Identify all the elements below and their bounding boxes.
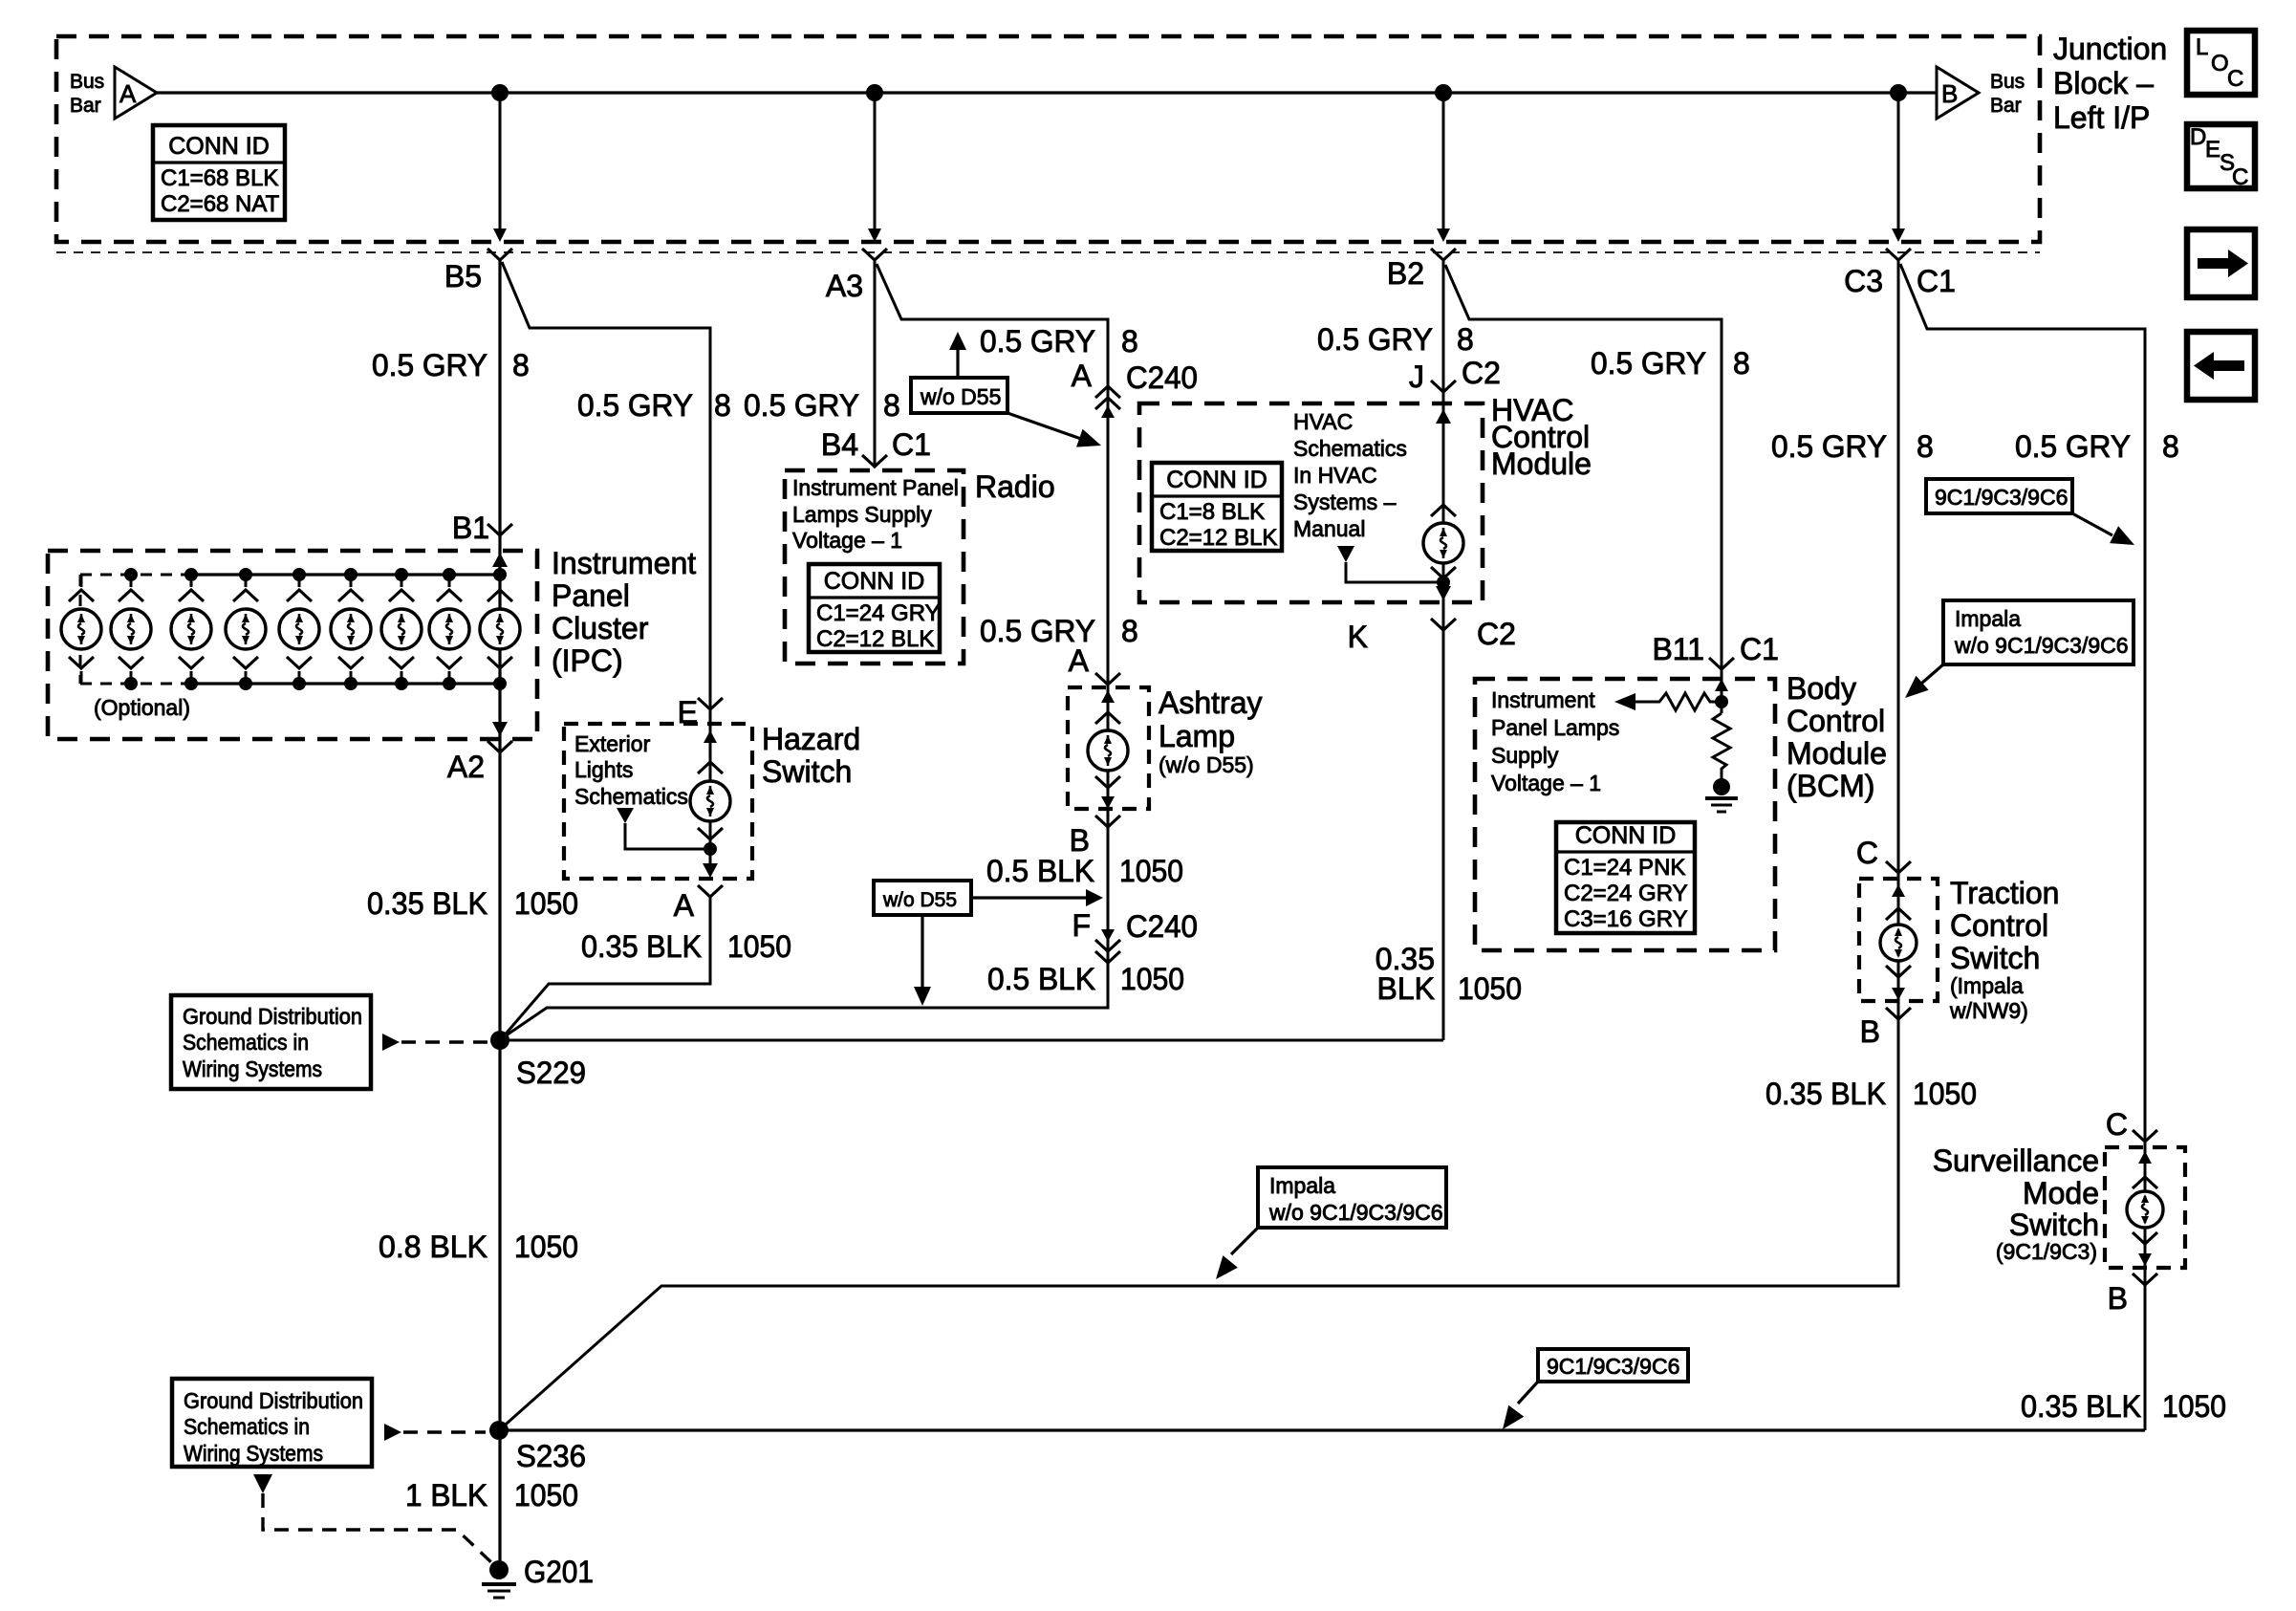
svg-text:Lights: Lights — [574, 757, 633, 782]
svg-text:Lamp: Lamp — [1159, 719, 1235, 753]
svg-text:0.35 BLK: 0.35 BLK — [367, 886, 487, 921]
svg-text:C3: C3 — [1844, 264, 1883, 298]
svg-text:Lamps Supply: Lamps Supply — [792, 502, 932, 527]
svg-text:0.5 GRY: 0.5 GRY — [577, 388, 693, 423]
svg-text:C240: C240 — [1126, 360, 1198, 395]
svg-text:Junction: Junction — [2053, 32, 2167, 66]
svg-text:Panel Lamps: Panel Lamps — [1491, 715, 1619, 740]
svg-text:S236: S236 — [516, 1439, 586, 1473]
svg-text:0.5 GRY: 0.5 GRY — [1591, 346, 1706, 381]
svg-text:Bar: Bar — [70, 95, 101, 117]
svg-text:Ground Distribution: Ground Distribution — [183, 1004, 362, 1029]
svg-text:Wiring Systems: Wiring Systems — [183, 1056, 322, 1081]
svg-text:Bus: Bus — [1990, 71, 2025, 93]
svg-text:O: O — [2211, 51, 2229, 76]
svg-text:8: 8 — [883, 388, 900, 423]
svg-text:Schematics in: Schematics in — [184, 1414, 310, 1439]
svg-text:w/o D55: w/o D55 — [882, 889, 957, 911]
svg-text:Ground Distribution: Ground Distribution — [184, 1388, 363, 1413]
svg-text:C1: C1 — [892, 427, 931, 462]
svg-text:1050: 1050 — [1120, 962, 1184, 996]
svg-text:B: B — [1941, 79, 1958, 108]
svg-text:1050: 1050 — [1119, 854, 1183, 888]
svg-text:K: K — [1348, 620, 1368, 654]
svg-text:1 BLK: 1 BLK — [405, 1478, 487, 1513]
svg-text:Surveillance: Surveillance — [1933, 1143, 2099, 1178]
svg-text:C1=24 PNK: C1=24 PNK — [1564, 855, 1685, 881]
svg-text:B: B — [1070, 823, 1090, 858]
svg-text:Wiring Systems: Wiring Systems — [184, 1441, 323, 1466]
svg-text:(IPC): (IPC) — [552, 643, 623, 678]
svg-text:9C1/9C3/9C6: 9C1/9C3/9C6 — [1935, 485, 2068, 510]
svg-text:Switch: Switch — [2009, 1208, 2099, 1242]
svg-text:C1=68 BLK: C1=68 BLK — [161, 165, 278, 191]
svg-text:w/o D55: w/o D55 — [920, 384, 1001, 409]
svg-text:0.5 GRY: 0.5 GRY — [1317, 322, 1433, 357]
svg-text:C2=24 GRY: C2=24 GRY — [1564, 881, 1688, 906]
svg-text:Module: Module — [1491, 446, 1592, 481]
svg-text:1050: 1050 — [2162, 1389, 2226, 1424]
svg-text:1050: 1050 — [1913, 1077, 1977, 1111]
svg-text:C1=24 GRY: C1=24 GRY — [816, 600, 941, 626]
svg-text:HVAC: HVAC — [1293, 409, 1353, 434]
svg-text:0.5 GRY: 0.5 GRY — [372, 348, 487, 382]
svg-text:8: 8 — [1733, 346, 1750, 381]
svg-text:Systems –: Systems – — [1293, 490, 1397, 514]
svg-text:(Optional): (Optional) — [94, 695, 190, 720]
svg-text:8: 8 — [1121, 324, 1138, 359]
svg-text:Mode: Mode — [2023, 1176, 2099, 1210]
svg-text:0.5 BLK: 0.5 BLK — [987, 962, 1095, 996]
svg-text:Instrument: Instrument — [1491, 687, 1595, 712]
svg-text:F: F — [1072, 908, 1091, 943]
svg-text:0.35 BLK: 0.35 BLK — [581, 929, 702, 964]
svg-text:(9C1/9C3): (9C1/9C3) — [1996, 1239, 2097, 1264]
svg-text:C1: C1 — [1740, 632, 1779, 666]
svg-text:A: A — [1072, 359, 1093, 393]
svg-text:Switch: Switch — [1950, 941, 2040, 975]
svg-text:D: D — [2190, 124, 2206, 150]
svg-text:(w/o D55): (w/o D55) — [1159, 752, 1254, 777]
svg-text:C1=8 BLK: C1=8 BLK — [1159, 499, 1265, 525]
svg-text:0.35 BLK: 0.35 BLK — [1765, 1077, 1886, 1111]
svg-text:C2: C2 — [1462, 356, 1501, 390]
svg-text:0.5 GRY: 0.5 GRY — [744, 388, 859, 423]
svg-text:0.8 BLK: 0.8 BLK — [379, 1230, 487, 1264]
svg-text:L: L — [2196, 34, 2208, 60]
svg-text:w/o 9C1/9C3/9C6: w/o 9C1/9C3/9C6 — [1268, 1200, 1443, 1225]
svg-text:0.5 GRY: 0.5 GRY — [1771, 429, 1887, 464]
svg-text:w/NW9): w/NW9) — [1949, 998, 2028, 1023]
svg-text:C2=12 BLK: C2=12 BLK — [816, 626, 934, 652]
svg-text:A3: A3 — [826, 269, 863, 303]
svg-text:C2=12 BLK: C2=12 BLK — [1159, 525, 1277, 551]
svg-text:8: 8 — [512, 348, 530, 382]
svg-text:Impala: Impala — [1955, 606, 2021, 631]
svg-text:1050: 1050 — [727, 929, 791, 964]
svg-text:1050: 1050 — [1458, 971, 1522, 1006]
svg-text:B: B — [1860, 1014, 1880, 1049]
svg-text:0.5 GRY: 0.5 GRY — [2015, 429, 2131, 464]
svg-text:8: 8 — [2162, 429, 2179, 464]
svg-text:Bar: Bar — [1990, 95, 2022, 117]
svg-text:(BCM): (BCM) — [1787, 769, 1874, 803]
svg-text:C: C — [2106, 1107, 2128, 1142]
svg-text:Module: Module — [1787, 736, 1887, 771]
svg-text:Schematics: Schematics — [1293, 436, 1407, 461]
svg-text:CONN ID: CONN ID — [1166, 467, 1267, 493]
svg-text:Panel: Panel — [552, 578, 630, 613]
svg-text:Schematics: Schematics — [574, 784, 688, 809]
svg-text:Instrument: Instrument — [552, 546, 696, 580]
svg-text:In HVAC: In HVAC — [1293, 463, 1377, 488]
svg-text:Exterior: Exterior — [574, 731, 651, 756]
svg-text:BLK: BLK — [1377, 971, 1435, 1006]
svg-text:Manual: Manual — [1293, 516, 1365, 541]
svg-text:C2=68 NAT: C2=68 NAT — [161, 191, 280, 217]
svg-text:J: J — [1409, 359, 1424, 394]
svg-text:8: 8 — [714, 388, 731, 423]
svg-text:C3=16 GRY: C3=16 GRY — [1564, 906, 1688, 932]
svg-text:A: A — [1069, 643, 1090, 678]
svg-text:1050: 1050 — [514, 1478, 578, 1513]
svg-text:G201: G201 — [524, 1555, 594, 1589]
svg-text:Control: Control — [1787, 704, 1885, 738]
svg-text:8: 8 — [1121, 614, 1138, 648]
svg-text:B2: B2 — [1387, 256, 1424, 291]
svg-text:B5: B5 — [444, 259, 482, 294]
svg-text:C: C — [1856, 836, 1878, 870]
svg-text:B4: B4 — [821, 427, 858, 462]
svg-text:1050: 1050 — [514, 1230, 578, 1264]
svg-text:Bus: Bus — [70, 71, 104, 93]
svg-text:9C1/9C3/9C6: 9C1/9C3/9C6 — [1547, 1354, 1679, 1379]
svg-text:0.5 BLK: 0.5 BLK — [986, 854, 1094, 888]
svg-text:8: 8 — [1457, 322, 1474, 357]
svg-text:C: C — [2227, 66, 2243, 92]
svg-text:Impala: Impala — [1269, 1173, 1335, 1198]
svg-text:C2: C2 — [1477, 617, 1516, 651]
svg-text:B: B — [2108, 1281, 2128, 1316]
svg-text:B11: B11 — [1652, 632, 1704, 666]
svg-text:A: A — [674, 888, 695, 923]
svg-text:S229: S229 — [516, 1056, 586, 1090]
svg-text:Radio: Radio — [975, 469, 1055, 504]
svg-text:1050: 1050 — [514, 886, 578, 921]
svg-text:Block –: Block – — [2053, 66, 2154, 100]
svg-text:CONN ID: CONN ID — [1575, 822, 1677, 849]
svg-text:CONN ID: CONN ID — [824, 568, 925, 595]
svg-text:C1: C1 — [1917, 264, 1956, 298]
svg-text:E: E — [2205, 137, 2220, 163]
svg-text:A2: A2 — [447, 750, 485, 784]
svg-text:Left I/P: Left I/P — [2053, 100, 2150, 135]
svg-text:0.35 BLK: 0.35 BLK — [2021, 1389, 2141, 1424]
svg-text:A: A — [119, 79, 137, 108]
svg-text:Voltage – 1: Voltage – 1 — [792, 528, 902, 553]
svg-text:w/o 9C1/9C3/9C6: w/o 9C1/9C3/9C6 — [1954, 633, 2129, 658]
svg-text:C: C — [2232, 164, 2248, 190]
svg-text:Hazard: Hazard — [762, 722, 860, 756]
svg-text:(Impala: (Impala — [1950, 973, 2024, 998]
svg-text:Supply: Supply — [1491, 743, 1559, 768]
svg-text:Ashtray: Ashtray — [1159, 686, 1262, 720]
svg-text:Control: Control — [1950, 908, 2048, 943]
svg-text:Cluster: Cluster — [552, 611, 649, 645]
svg-text:0.5 GRY: 0.5 GRY — [980, 324, 1095, 359]
svg-text:Schematics in: Schematics in — [183, 1030, 309, 1055]
svg-text:C240: C240 — [1126, 909, 1198, 944]
svg-text:Body: Body — [1787, 671, 1856, 706]
svg-text:Switch: Switch — [762, 754, 852, 789]
svg-text:B1: B1 — [452, 511, 489, 545]
svg-text:Traction: Traction — [1950, 876, 2059, 910]
svg-text:8: 8 — [1917, 429, 1934, 464]
svg-text:CONN ID: CONN ID — [168, 133, 270, 160]
svg-text:Voltage – 1: Voltage – 1 — [1491, 771, 1601, 795]
svg-text:Instrument Panel: Instrument Panel — [792, 475, 959, 500]
